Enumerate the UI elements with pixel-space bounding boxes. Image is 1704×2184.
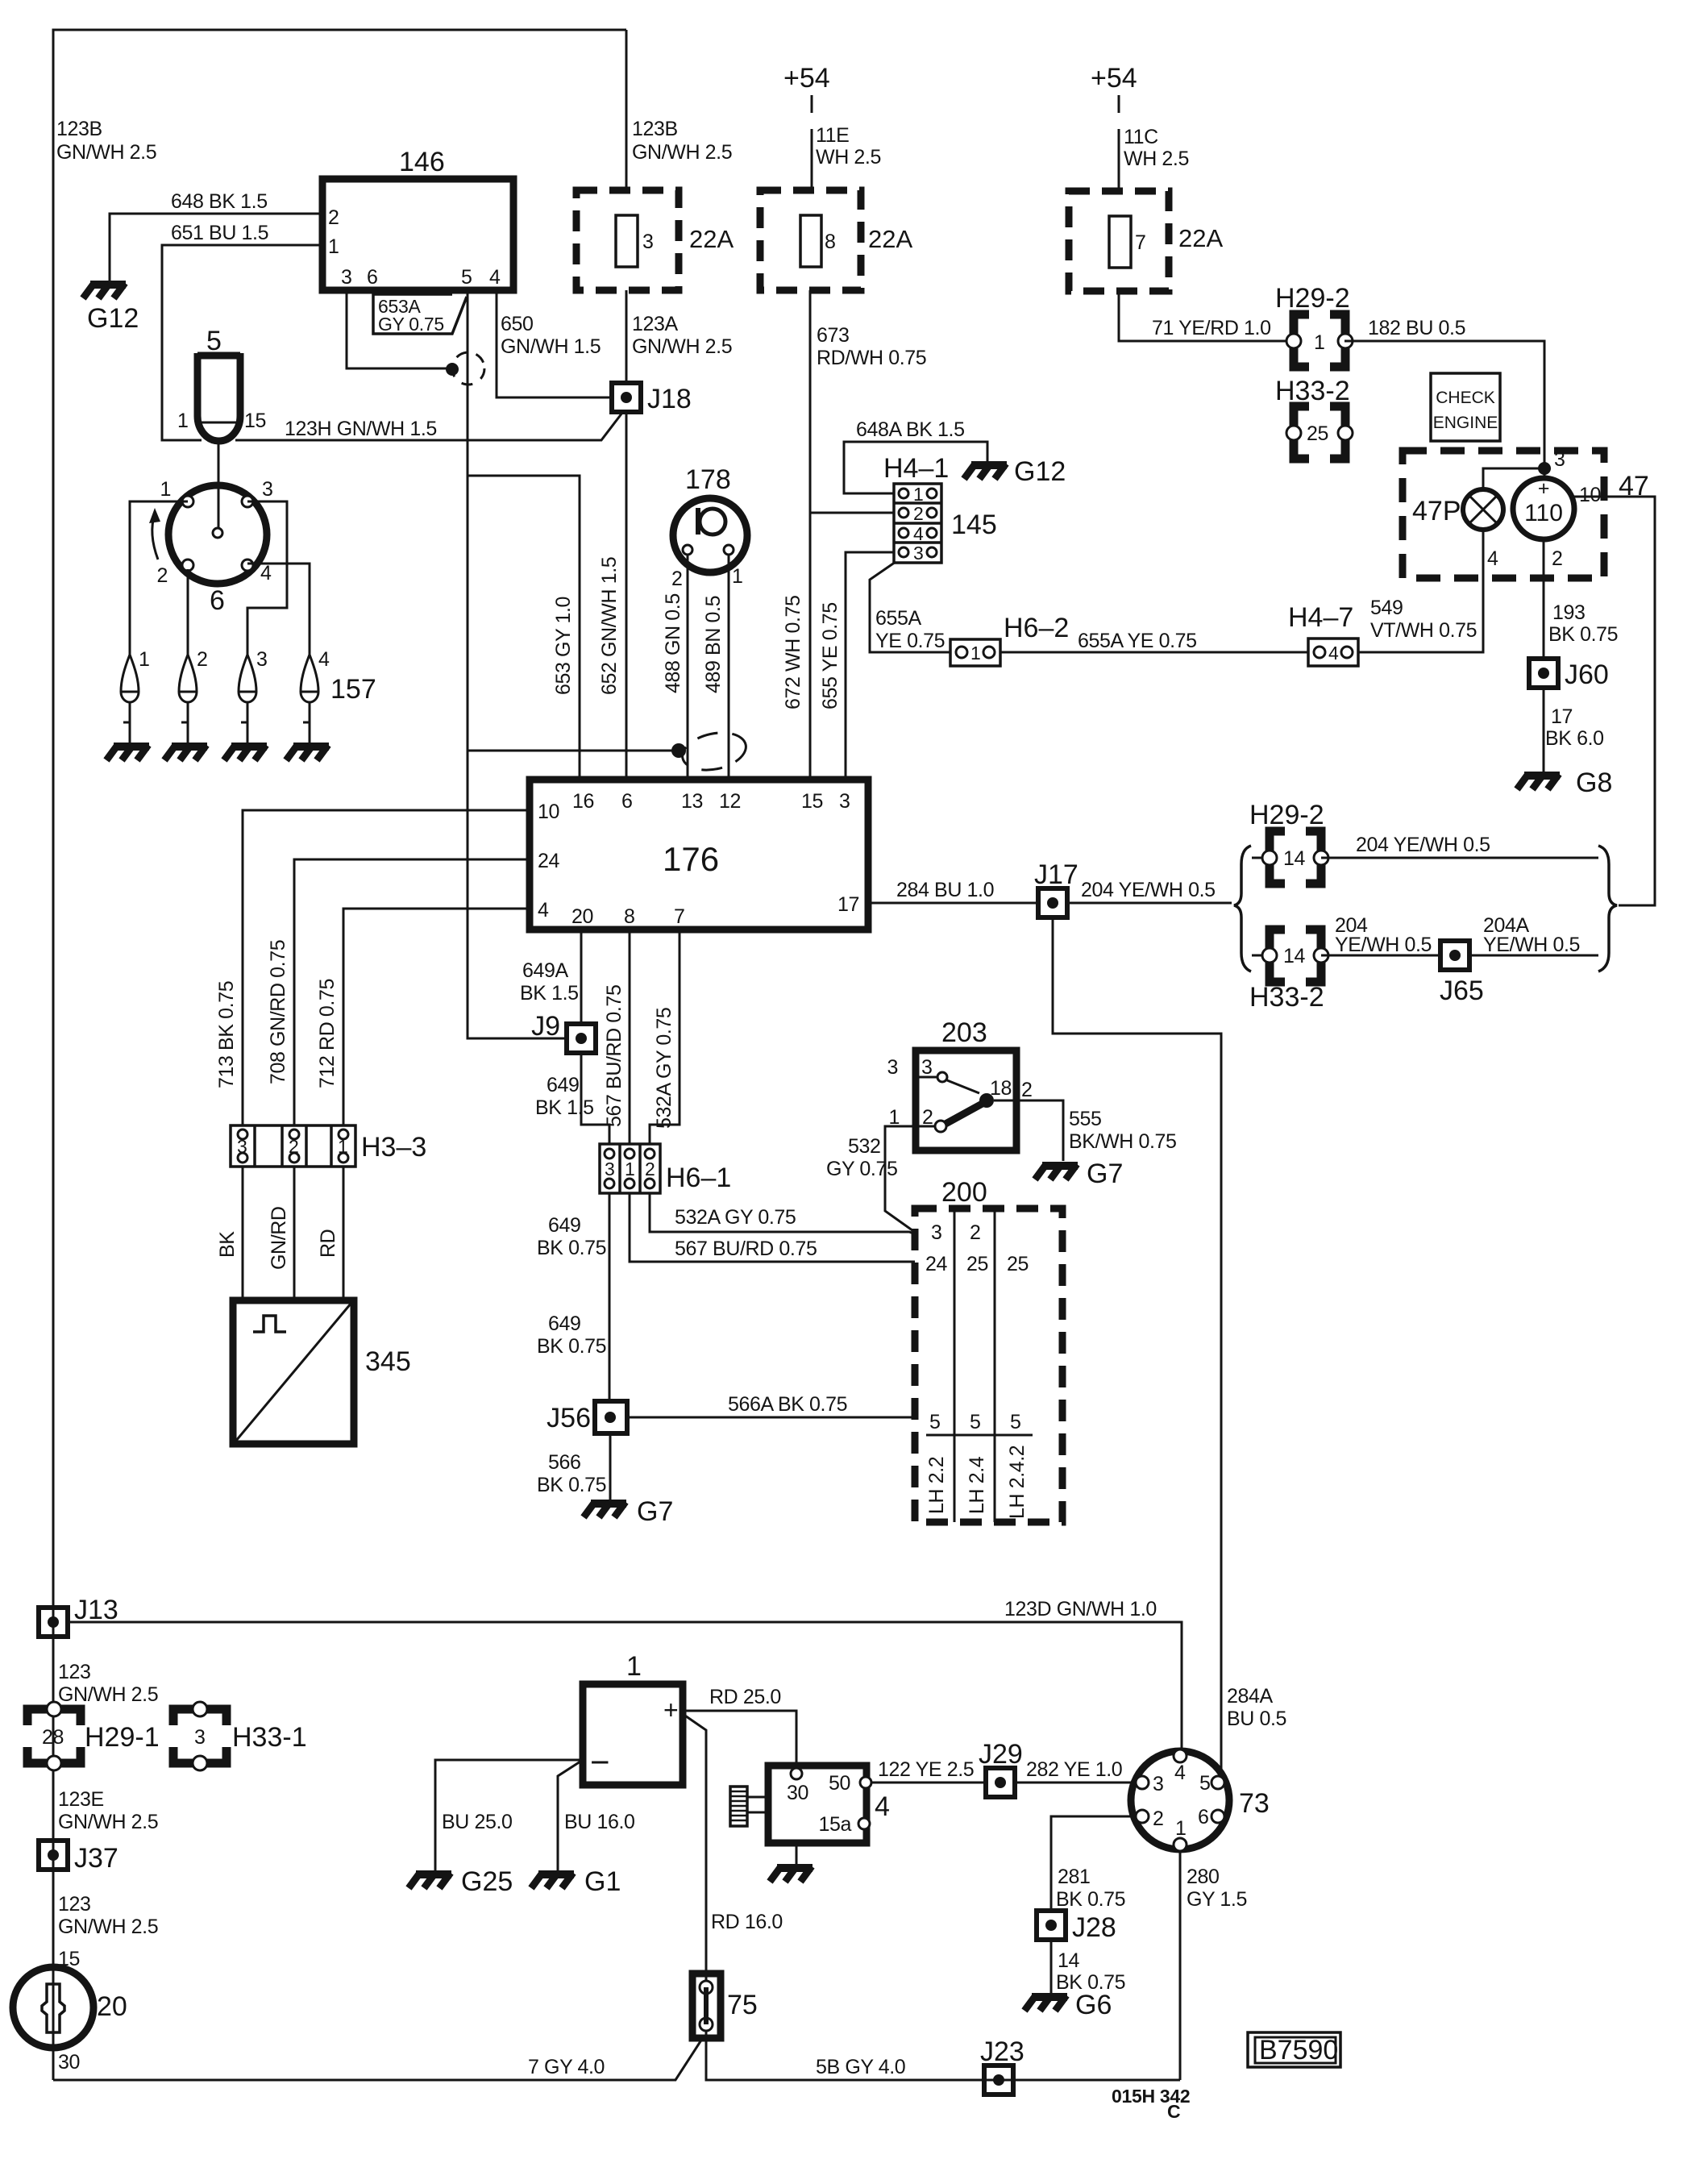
svg-text:3: 3 [237, 1136, 247, 1157]
svg-text:655A YE 0.75: 655A YE 0.75 [1078, 630, 1197, 652]
svg-text:713 BK 0.75: 713 BK 0.75 [215, 981, 238, 1088]
svg-text:649: 649 [547, 1074, 580, 1096]
svg-text:RD/WH 0.75: RD/WH 0.75 [817, 347, 926, 369]
crankshaft sensor 345 [233, 1300, 354, 1444]
wire 555 BK/WH 0.75 to G7 [994, 1100, 1063, 1161]
svg-text:RD 16.0: RD 16.0 [711, 1911, 783, 1933]
ignition switch 73 [1131, 1751, 1229, 1849]
svg-text:649: 649 [548, 1312, 581, 1335]
svg-text:H3–3: H3–3 [361, 1132, 426, 1163]
svg-text:4: 4 [1328, 643, 1339, 664]
svg-text:345: 345 [365, 1346, 411, 1377]
svg-text:22A: 22A [1178, 224, 1223, 252]
svg-text:11C: 11C [1124, 126, 1158, 148]
wire 648A BK 1.5 to G12 [844, 442, 987, 493]
svg-text:123: 123 [58, 1893, 91, 1916]
svg-text:204 YE/WH 0.5: 204 YE/WH 0.5 [1356, 834, 1490, 856]
spark plug 4 (157) [301, 655, 318, 743]
svg-text:1: 1 [626, 1651, 642, 1682]
svg-text:2: 2 [1021, 1079, 1033, 1101]
svg-text:712 RD 0.75: 712 RD 0.75 [316, 979, 339, 1088]
svg-text:G12: G12 [1014, 456, 1066, 487]
svg-text:17: 17 [837, 893, 859, 916]
wire 567 BU/RD 0.75 to 200 [630, 1193, 915, 1262]
wire 204 YE/WH 0.5 lower to J65 [1321, 955, 1440, 957]
svg-text:5B GY 4.0: 5B GY 4.0 [816, 2056, 905, 2078]
svg-text:3: 3 [194, 1726, 206, 1749]
svg-text:GY 0.75: GY 0.75 [378, 314, 444, 335]
svg-text:G7: G7 [637, 1496, 673, 1527]
svg-text:8: 8 [624, 905, 635, 928]
svg-text:3: 3 [921, 1056, 933, 1079]
wire 280 GY 1.5 from pin1 [1179, 1851, 1182, 2080]
spark plug 2 [179, 655, 197, 743]
wire 567 from pin 8 [629, 930, 631, 1144]
svg-text:14: 14 [1058, 1949, 1080, 1972]
svg-text:+: + [663, 1695, 679, 1724]
wire 532A from pin 7 [650, 930, 680, 1144]
svg-text:B7590: B7590 [1259, 2035, 1338, 2065]
svg-text:LH 2.4: LH 2.4 [966, 1456, 988, 1514]
svg-text:H6–2: H6–2 [1004, 613, 1069, 643]
svg-text:4: 4 [489, 266, 501, 289]
svg-text:H4–1: H4–1 [883, 453, 949, 484]
svg-text:4: 4 [913, 523, 924, 544]
wire 649 BK 1.5 J9 to H6-1 [581, 1053, 609, 1144]
svg-text:YE 0.75: YE 0.75 [875, 630, 945, 652]
svg-text:110: 110 [1524, 500, 1563, 526]
svg-text:123A: 123A [632, 313, 679, 335]
svg-text:2: 2 [289, 1136, 299, 1157]
svg-text:LH 2.4.2: LH 2.4.2 [1006, 1446, 1029, 1519]
warning lamp 47P [1463, 489, 1503, 530]
svg-text:5: 5 [1199, 1772, 1211, 1795]
svg-text:17: 17 [1551, 705, 1573, 728]
svg-text:J65: J65 [1440, 976, 1484, 1006]
svg-text:RD: RD [317, 1229, 339, 1258]
connector J13 [39, 1608, 68, 1637]
wire pin2 to J28/G6 [1051, 1816, 1136, 1911]
svg-text:15: 15 [244, 410, 266, 432]
node dot on shield circle [446, 363, 459, 376]
wire 566A BK 0.75 to 200 [627, 1416, 915, 1419]
svg-text:5: 5 [461, 266, 472, 289]
svg-text:488 GN 0.5: 488 GN 0.5 [662, 593, 684, 693]
svg-text:2: 2 [645, 1159, 655, 1179]
wire 655A YE 0.75 to H4-7 [1000, 651, 1308, 654]
wire distributor t2 to plug 2 [187, 569, 189, 655]
voltmeter 110 [1513, 478, 1574, 539]
svg-text:1: 1 [177, 410, 189, 432]
svg-text:532A GY 0.75: 532A GY 0.75 [653, 1008, 675, 1129]
wire 489 BN 0.5 [728, 555, 730, 780]
svg-text:YE/WH 0.5: YE/WH 0.5 [1335, 934, 1432, 956]
fuse 3 [576, 190, 679, 290]
svg-text:H29-1: H29-1 [85, 1722, 160, 1753]
svg-text:25: 25 [1307, 422, 1328, 445]
wire 284 BU 1.0 pin17 to J17 [868, 902, 1038, 905]
svg-text:14: 14 [1283, 945, 1306, 967]
svg-text:GN/WH 2.5: GN/WH 2.5 [58, 1683, 158, 1706]
wire 182 BU 0.5 [1344, 341, 1544, 478]
svg-text:284 BU 1.0: 284 BU 1.0 [896, 879, 994, 901]
svg-text:GN/WH 2.5: GN/WH 2.5 [58, 1811, 158, 1833]
wire RD to 345 [343, 1167, 345, 1300]
svg-text:+: + [1538, 477, 1549, 500]
svg-text:GN/WH 2.5: GN/WH 2.5 [632, 141, 732, 164]
starter solenoid coil [730, 1787, 747, 1826]
svg-text:30: 30 [58, 2051, 80, 2074]
svg-text:BK 6.0: BK 6.0 [1545, 727, 1604, 750]
connector J60 [1529, 659, 1558, 688]
connector H33-2 pin 14 [1252, 955, 1270, 957]
svg-text:BK 0.75: BK 0.75 [1548, 623, 1618, 646]
svg-text:50: 50 [829, 1772, 850, 1795]
svg-text:1: 1 [160, 478, 171, 501]
starter ground [796, 1843, 798, 1864]
svg-text:1: 1 [1314, 331, 1325, 354]
wire 122 YE 2.5 [871, 1782, 986, 1784]
svg-text:655A: 655A [875, 607, 922, 630]
svg-text:157: 157 [330, 674, 376, 705]
wire node3 to lamp 47P [1483, 468, 1544, 489]
wire distributor t4 to plug 4 [247, 564, 310, 655]
svg-text:GY 1.5: GY 1.5 [1187, 1888, 1247, 1911]
svg-text:2: 2 [671, 568, 683, 590]
svg-text:1: 1 [913, 484, 924, 505]
svg-text:J56: J56 [547, 1403, 591, 1433]
svg-text:123B: 123B [632, 118, 678, 140]
svg-text:3: 3 [256, 648, 268, 671]
svg-text:LH 2.2: LH 2.2 [925, 1457, 948, 1514]
svg-text:H33-2: H33-2 [1249, 982, 1324, 1013]
svg-text:7 GY 4.0: 7 GY 4.0 [528, 2056, 605, 2078]
svg-text:567 BU/RD 0.75: 567 BU/RD 0.75 [603, 985, 625, 1127]
spark plug 1 [121, 655, 139, 743]
svg-text:3: 3 [1153, 1773, 1164, 1795]
fuse 8 [760, 190, 861, 290]
svg-text:BK 0.75: BK 0.75 [537, 1237, 606, 1259]
svg-text:178: 178 [685, 464, 731, 495]
svg-text:282 YE 1.0: 282 YE 1.0 [1026, 1758, 1122, 1781]
ground G12 [83, 283, 126, 298]
svg-text:648A BK 1.5: 648A BK 1.5 [856, 418, 965, 441]
svg-text:14: 14 [1283, 847, 1306, 870]
connector H33-1 pin 3 [173, 1709, 227, 1763]
svg-text:5: 5 [1010, 1411, 1021, 1433]
wire 123H GN/WH 1.5 [235, 413, 622, 440]
right brace [1598, 846, 1617, 971]
wire 649A BK 1.5 pin 20 to J9 [580, 930, 583, 1024]
svg-text:+54: +54 [783, 63, 830, 94]
left brace [1234, 846, 1251, 971]
ground G7 (second) [1035, 1164, 1078, 1179]
svg-text:6: 6 [621, 790, 633, 813]
svg-text:652 GN/WH 1.5: 652 GN/WH 1.5 [598, 557, 621, 695]
svg-text:280: 280 [1187, 1866, 1220, 1888]
svg-text:489 BN 0.5: 489 BN 0.5 [702, 596, 725, 693]
svg-text:75: 75 [727, 1990, 758, 2020]
wire 204 YE/WH 0.5 upper [1321, 857, 1598, 859]
fuse 75 [705, 1974, 708, 2038]
svg-text:WH 2.5: WH 2.5 [816, 146, 881, 168]
svg-text:284A: 284A [1227, 1685, 1274, 1708]
svg-text:WH 2.5: WH 2.5 [1124, 148, 1189, 170]
connector J9 [567, 1024, 596, 1053]
wire distributor t1 to plug 1 [130, 501, 188, 655]
svg-text:653 GY 1.0: 653 GY 1.0 [552, 597, 575, 695]
connector J28 [1037, 1911, 1066, 1940]
connector J56 [595, 1401, 627, 1433]
svg-text:25: 25 [1007, 1253, 1029, 1275]
svg-text:BK 0.75: BK 0.75 [537, 1335, 606, 1358]
svg-text:J17: J17 [1034, 859, 1079, 890]
svg-text:1: 1 [328, 235, 339, 258]
wire RD 16.0 battery to fuse 75 [683, 1714, 706, 1974]
svg-text:J28: J28 [1072, 1912, 1116, 1943]
svg-text:22A: 22A [689, 225, 734, 253]
svg-text:145: 145 [951, 510, 997, 540]
svg-text:200: 200 [941, 1177, 987, 1208]
svg-text:GY 0.75: GY 0.75 [826, 1158, 897, 1180]
svg-text:10: 10 [1579, 484, 1601, 506]
wire 17 BK 6.0 to G8 [1543, 688, 1545, 772]
svg-text:708 GN/RD 0.75: 708 GN/RD 0.75 [267, 940, 289, 1084]
svg-text:123: 123 [58, 1661, 91, 1683]
wire from pin5 of 146 down [468, 290, 580, 780]
svg-text:123D GN/WH 1.0: 123D GN/WH 1.0 [1004, 1598, 1157, 1620]
svg-text:672 WH 0.75: 672 WH 0.75 [782, 595, 804, 709]
svg-text:28: 28 [42, 1726, 64, 1749]
fuse 7 [1069, 191, 1169, 291]
svg-text:J18: J18 [647, 384, 692, 414]
connector J37 [39, 1841, 68, 1870]
rotation arrow [152, 514, 158, 560]
wire 5B GY 4.0 [706, 2038, 1180, 2080]
distributor 6 [168, 485, 267, 584]
connector H29-1 pin 28 [27, 1709, 81, 1763]
svg-text:204 YE/WH 0.5: 204 YE/WH 0.5 [1081, 879, 1216, 901]
svg-text:123E: 123E [58, 1788, 104, 1811]
svg-text:J60: J60 [1565, 659, 1609, 690]
wire 204 YE/WH 0.5 to brace [1067, 902, 1232, 905]
svg-text:G8: G8 [1576, 768, 1612, 798]
wire coil to distributor center [218, 441, 220, 528]
svg-text:GN/RD: GN/RD [268, 1206, 290, 1270]
svg-text:7: 7 [1135, 231, 1146, 254]
svg-text:123B: 123B [56, 118, 102, 140]
svg-text:G12: G12 [87, 303, 139, 334]
svg-text:2: 2 [197, 648, 208, 671]
wire 651 BU 1.5 [162, 245, 322, 440]
svg-text:3: 3 [262, 478, 273, 501]
wire 123B top/left border [53, 30, 626, 2080]
svg-text:73: 73 [1239, 1788, 1270, 1819]
svg-text:555: 555 [1069, 1108, 1102, 1130]
svg-text:12: 12 [719, 790, 741, 813]
svg-text:281: 281 [1058, 1866, 1091, 1888]
svg-text:2: 2 [328, 206, 339, 229]
svg-text:649A: 649A [522, 959, 569, 982]
wire 123D GN/WH 1.0 [68, 1622, 1182, 1750]
wire 708 GN/RD 0.75 from pin 24 [294, 859, 530, 1125]
wire 566 BK 0.75 to G7 [609, 1433, 612, 1500]
svg-text:649: 649 [548, 1214, 581, 1237]
condenser dashed circle [452, 352, 484, 385]
svg-text:CHECK: CHECK [1436, 389, 1495, 407]
CHECK ENGINE text box [1431, 373, 1500, 441]
svg-text:GN/WH 2.5: GN/WH 2.5 [58, 1916, 158, 1938]
svg-text:H6–1: H6–1 [666, 1163, 731, 1193]
svg-text:3: 3 [341, 266, 352, 289]
svg-text:5: 5 [970, 1411, 981, 1433]
svg-text:4: 4 [538, 899, 549, 921]
svg-text:24: 24 [925, 1253, 948, 1275]
wire distributor t3 to plug 3 [247, 501, 287, 655]
svg-text:3: 3 [887, 1056, 898, 1079]
svg-text:YE/WH 0.5: YE/WH 0.5 [1483, 934, 1580, 956]
svg-text:648 BK 1.5: 648 BK 1.5 [171, 190, 268, 213]
wire J17 down to ignition switch [1053, 917, 1221, 1778]
svg-text:VT/WH 0.75: VT/WH 0.75 [1370, 619, 1477, 642]
svg-text:+54: +54 [1091, 63, 1137, 94]
svg-text:1: 1 [1175, 1817, 1187, 1840]
svg-text:47P: 47P [1412, 496, 1461, 526]
wire 673 RD/WH 0.75 / 672 WH 0.75 [809, 290, 812, 780]
svg-text:H29-2: H29-2 [1249, 800, 1324, 830]
svg-text:549: 549 [1370, 597, 1403, 619]
wire 653 from pin3 of 146 [347, 290, 448, 368]
wire 532 GY 0.75 from switch to 200 [885, 1126, 936, 1233]
svg-text:15: 15 [801, 790, 823, 813]
ground G7 [584, 1502, 626, 1517]
svg-text:567 BU/RD 0.75: 567 BU/RD 0.75 [675, 1238, 817, 1260]
svg-text:122 YE 2.5: 122 YE 2.5 [878, 1758, 974, 1781]
wire 712 RD 0.75 from pin 4 [343, 909, 530, 1125]
shield dashed ellipse [679, 727, 749, 776]
svg-text:4: 4 [318, 648, 330, 671]
ground G12 (second) [964, 464, 1007, 479]
svg-text:566: 566 [548, 1451, 581, 1474]
svg-text:5: 5 [929, 1411, 941, 1433]
svg-text:18: 18 [990, 1077, 1012, 1100]
svg-text:182 BU 0.5: 182 BU 0.5 [1368, 317, 1465, 339]
svg-text:566A BK 0.75: 566A BK 0.75 [728, 1393, 847, 1416]
svg-text:BK 0.75: BK 0.75 [1056, 1888, 1125, 1911]
shield junction wire [468, 750, 677, 752]
svg-text:GN/WH 1.5: GN/WH 1.5 [501, 335, 601, 358]
svg-text:H33-2: H33-2 [1275, 376, 1350, 406]
svg-text:30: 30 [787, 1782, 808, 1804]
connector H3-3 [231, 1125, 355, 1167]
wire 488 GN 0.5 [687, 555, 689, 780]
svg-text:7: 7 [674, 905, 685, 928]
svg-text:6: 6 [367, 266, 378, 289]
ECU 176 [530, 780, 868, 930]
svg-text:ENGINE: ENGINE [1433, 414, 1498, 432]
svg-text:650: 650 [501, 313, 534, 335]
svg-text:3: 3 [642, 231, 654, 253]
svg-text:2: 2 [1153, 1808, 1164, 1830]
svg-text:22A: 22A [868, 225, 912, 253]
svg-text:BK 1.5: BK 1.5 [520, 982, 579, 1005]
svg-text:J23: J23 [980, 2036, 1024, 2067]
svg-text:BU 25.0: BU 25.0 [442, 1811, 513, 1833]
svg-text:3: 3 [1554, 448, 1565, 471]
svg-text:GN/WH 2.5: GN/WH 2.5 [56, 141, 156, 164]
svg-text:655 YE 0.75: 655 YE 0.75 [819, 602, 842, 709]
wire 652 GN/WH 1.5 from J18 to 176 pin 6 [625, 412, 628, 780]
connector H6-1 [600, 1144, 660, 1193]
svg-text:G1: G1 [584, 1866, 621, 1897]
svg-text:1: 1 [139, 648, 150, 671]
starter relay 4 [768, 1766, 867, 1843]
svg-text:4: 4 [1487, 547, 1498, 570]
svg-text:BK 1.5: BK 1.5 [535, 1096, 594, 1119]
svg-text:G7: G7 [1087, 1159, 1123, 1189]
svg-text:3: 3 [839, 790, 850, 813]
wire 204A YE/WH 0.5 [1469, 955, 1598, 957]
svg-text:J9: J9 [531, 1011, 560, 1042]
wire from pin 10 to right edge [1572, 497, 1655, 905]
svg-text:H29-2: H29-2 [1275, 283, 1350, 314]
svg-text:25: 25 [966, 1253, 988, 1275]
svg-text:4: 4 [1174, 1762, 1186, 1784]
svg-text:1: 1 [970, 643, 981, 664]
svg-text:J13: J13 [74, 1595, 118, 1625]
svg-text:193: 193 [1552, 601, 1586, 624]
svg-text:G6: G6 [1075, 1990, 1112, 2020]
wire lamp pin 4 down to H4-7 [1358, 530, 1483, 652]
wire 71 YE/RD 1.0 [1119, 291, 1295, 341]
svg-text:71 YE/RD 1.0: 71 YE/RD 1.0 [1152, 317, 1271, 339]
svg-text:20: 20 [97, 1991, 127, 2022]
instrument cluster 47 dashed box [1403, 451, 1604, 578]
svg-text:3: 3 [913, 543, 924, 564]
svg-text:532A GY 0.75: 532A GY 0.75 [675, 1206, 796, 1229]
wire GN/RD to 345 [293, 1167, 296, 1300]
wire gauge pin 2 down to J60 [1543, 539, 1545, 659]
wire 14 BK 0.75 to G6 [1050, 1940, 1053, 1993]
svg-text:BK 0.75: BK 0.75 [537, 1474, 606, 1496]
svg-text:203: 203 [941, 1017, 987, 1048]
wire fuse8 branch to 145 pin 2 [810, 512, 894, 514]
svg-text:−: − [590, 1743, 610, 1781]
wire 650 GN/WH 1.5 from pin4 to J18 [497, 290, 612, 397]
svg-text:24: 24 [538, 850, 560, 872]
svg-text:146: 146 [399, 147, 445, 177]
svg-text:RD 25.0: RD 25.0 [709, 1686, 781, 1708]
callout 653A GY 0.75 [373, 294, 467, 334]
svg-text:6: 6 [1198, 1806, 1209, 1828]
svg-text:BK/WH 0.75: BK/WH 0.75 [1069, 1130, 1177, 1153]
svg-text:4: 4 [260, 562, 272, 584]
wire 648 BK 1.5 [110, 214, 322, 281]
svg-text:BK: BK [216, 1231, 239, 1258]
svg-text:123H GN/WH 1.5: 123H GN/WH 1.5 [285, 418, 437, 440]
svg-text:651 BU 1.5: 651 BU 1.5 [171, 222, 268, 244]
node 3 [1538, 462, 1551, 475]
sheet label B7590 [1248, 2032, 1340, 2067]
svg-text:C: C [1167, 2101, 1180, 2122]
svg-text:2: 2 [156, 564, 168, 587]
svg-text:GN/WH 2.5: GN/WH 2.5 [632, 335, 732, 358]
wire RD 25.0 to starter [683, 1711, 796, 1768]
svg-text:6: 6 [210, 585, 225, 616]
svg-text:5: 5 [206, 326, 222, 356]
svg-text:16: 16 [572, 790, 594, 813]
wire 655 YE 0.75 from 145 pin 3 to 176 pin 3 [846, 552, 894, 780]
